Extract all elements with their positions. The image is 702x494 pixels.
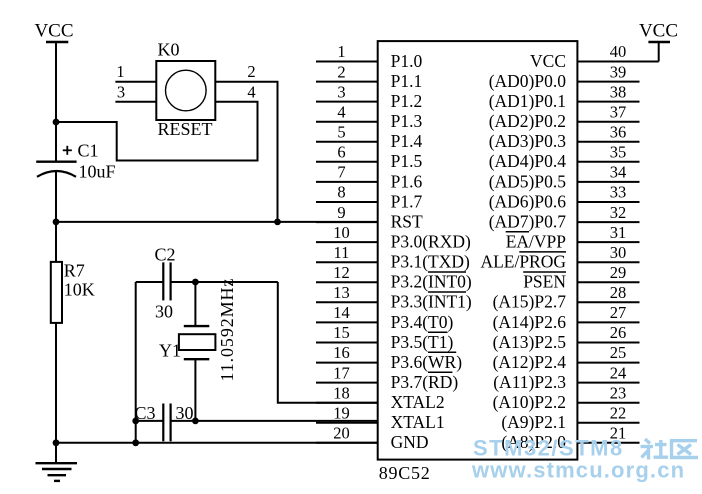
svg-text:14: 14 <box>333 303 350 322</box>
U1 pin 13: P3.3 <box>316 283 472 312</box>
svg-text:2: 2 <box>247 62 255 81</box>
svg-text:P1.2: P1.2 <box>391 91 423 111</box>
wire: RST node down to R7 <box>55 222 57 262</box>
svg-text:R7: R7 <box>64 261 85 281</box>
svg-text:P1.1: P1.1 <box>391 71 423 91</box>
svg-text:EA/VPP: EA/VPP <box>506 232 567 252</box>
svg-text:27: 27 <box>610 303 627 322</box>
wire: oscillator left rail <box>135 282 137 443</box>
svg-text:34: 34 <box>610 163 627 182</box>
svg-text:(AD4)P0.4: (AD4)P0.4 <box>489 151 567 171</box>
svg-text:(A10)P2.2: (A10)P2.2 <box>493 392 566 412</box>
svg-text:28: 28 <box>610 283 627 302</box>
svg-text:22: 22 <box>610 404 627 423</box>
svg-text:13: 13 <box>333 283 350 302</box>
U1 pin 7: P1.6 <box>316 163 422 192</box>
svg-text:26: 26 <box>610 323 627 342</box>
svg-text:31: 31 <box>610 223 627 242</box>
svg-text:(A13)P2.5: (A13)P2.5 <box>493 332 567 352</box>
svg-text:19: 19 <box>333 404 350 423</box>
U1 pin 38: P0.1 <box>489 82 640 111</box>
svg-text:89C52: 89C52 <box>379 463 431 483</box>
svg-text:30: 30 <box>610 243 627 262</box>
svg-text:GND: GND <box>391 432 429 452</box>
svg-text:35: 35 <box>610 143 627 162</box>
U1 pin 5: P1.4 <box>316 123 422 152</box>
U1 pin 17: P3.7 <box>316 363 458 392</box>
U1 pin 21: P2.0 <box>501 424 639 453</box>
svg-text:XTAL1: XTAL1 <box>391 412 445 432</box>
wire: VCC rail down to C1 top plate <box>55 42 57 162</box>
svg-text:3: 3 <box>117 83 125 102</box>
svg-text:18: 18 <box>333 383 350 402</box>
svg-text:9: 9 <box>337 203 345 222</box>
svg-text:(A14)P2.6: (A14)P2.6 <box>493 312 567 332</box>
U1 pin 34: P0.5 <box>489 163 640 192</box>
svg-text:5: 5 <box>337 123 345 142</box>
svg-text:RST: RST <box>391 212 423 232</box>
K0 pin 1 stub and number <box>115 62 156 82</box>
node: junction C2 / crystal Y1 top <box>192 279 199 286</box>
wire: left rail to C2 <box>136 281 164 283</box>
U1 pin 16: P3.6 <box>316 343 462 372</box>
svg-text:P3.6(WR): P3.6(WR) <box>391 352 463 372</box>
svg-text:C1: C1 <box>78 141 99 161</box>
U1 pin 33: P0.6 <box>489 183 640 212</box>
capacitor C3 <box>163 404 170 442</box>
svg-text:32: 32 <box>610 203 627 222</box>
U1 pin 30: ALE/PROG <box>480 243 639 272</box>
node: junction RST net / left rail <box>53 219 60 226</box>
svg-text:1: 1 <box>337 42 345 61</box>
svg-text:VCC: VCC <box>639 21 678 42</box>
wire: XTAL2 branch down and to IC pin 18 <box>278 282 378 403</box>
svg-text:VCC: VCC <box>530 51 566 71</box>
op-amp/IC U1 89C52 body <box>378 41 578 460</box>
K0 pin 4 stub and number <box>215 83 258 102</box>
node: junction VCC rail / reset-network <box>53 119 60 126</box>
svg-text:P1.0: P1.0 <box>391 51 423 71</box>
U1 pin 24: P2.3 <box>493 363 639 392</box>
wire: Y1 bottom stub <box>194 359 196 421</box>
wire: C1 bottom to RST node <box>55 171 57 222</box>
svg-text:C2: C2 <box>155 245 176 265</box>
svg-text:P3.4(T0): P3.4(T0) <box>391 312 454 332</box>
wire: left rail to C3 <box>136 420 164 422</box>
watermark line 1: STM32/STM8 + CJK <box>473 436 624 461</box>
U1 pin 9: RST <box>316 203 423 232</box>
U1 pin 22: P2.1 <box>501 404 639 433</box>
svg-text:6: 6 <box>337 143 345 162</box>
svg-text:(A11)P2.3: (A11)P2.3 <box>493 372 566 392</box>
node: junction oscillator rail / C3 <box>132 418 139 425</box>
svg-text:11: 11 <box>334 243 350 262</box>
U1 pin 2: P1.1 <box>316 62 422 91</box>
svg-text:P3.1(TXD): P3.1(TXD) <box>391 252 470 272</box>
svg-text:(AD1)P0.1: (AD1)P0.1 <box>489 91 566 111</box>
svg-text:2: 2 <box>337 62 345 81</box>
svg-text:(AD2)P0.2: (AD2)P0.2 <box>489 111 566 131</box>
svg-text:P3.0(RXD): P3.0(RXD) <box>391 232 471 252</box>
svg-text:P1.3: P1.3 <box>391 111 423 131</box>
svg-text:38: 38 <box>610 82 627 101</box>
pushbutton K0 body <box>156 61 215 120</box>
svg-text:P3.2(INT0): P3.2(INT0) <box>391 272 472 292</box>
svg-text:17: 17 <box>333 363 350 382</box>
U1 pin 8: P1.7 <box>316 183 422 212</box>
wire: IC pin 40 up to VCC symbol <box>658 41 660 62</box>
svg-text:XTAL2: XTAL2 <box>391 392 445 412</box>
U1 pin 23: P2.2 <box>493 383 640 412</box>
U1 pin 12: P3.2 <box>316 263 472 292</box>
svg-text:P3.3(INT1): P3.3(INT1) <box>391 292 472 312</box>
svg-text:7: 7 <box>337 163 345 182</box>
U1 pin 26: P2.5 <box>493 323 640 352</box>
watermark CJK char 1 (she) <box>641 439 669 460</box>
U1 pin 15: P3.5 <box>316 323 453 352</box>
svg-text:RESET: RESET <box>158 119 213 139</box>
svg-text:(AD7)P0.7: (AD7)P0.7 <box>489 212 567 232</box>
svg-text:29: 29 <box>610 263 627 282</box>
crystal Y1 <box>179 326 216 359</box>
svg-text:P3.5(T1): P3.5(T1) <box>391 332 454 352</box>
K0 pin 3 stub and number <box>115 83 156 102</box>
U1 pin 37: P0.2 <box>489 102 640 131</box>
U1 pin 27: P2.6 <box>493 303 640 332</box>
svg-text:(AD0)P0.0: (AD0)P0.0 <box>489 71 567 91</box>
U1 pin 3: P1.2 <box>316 82 422 111</box>
resistor R7 <box>51 262 62 323</box>
wire: R7 down to ground node <box>55 323 57 463</box>
U1 pin 19: XTAL1 <box>316 404 445 433</box>
power symbol VCC (top left) <box>34 21 73 42</box>
ground symbol <box>36 463 78 481</box>
U1 pin 32: P0.7 <box>489 203 640 232</box>
svg-text:4: 4 <box>247 83 255 102</box>
svg-text:20: 20 <box>333 424 350 443</box>
svg-text:PSEN: PSEN <box>523 272 566 292</box>
U1 pin 14: P3.4 <box>316 303 453 332</box>
svg-text:36: 36 <box>610 123 627 142</box>
svg-text:33: 33 <box>610 183 627 202</box>
U1 pin 29: PSEN <box>523 263 639 292</box>
U1 pin 25: P2.4 <box>493 343 640 372</box>
U1 pin 28: P2.7 <box>493 283 640 312</box>
U1 pin 18: XTAL2 <box>316 383 445 412</box>
U1 pin 35: P0.4 <box>489 143 640 172</box>
svg-text:39: 39 <box>610 62 627 81</box>
svg-text:3: 3 <box>337 82 345 101</box>
U1 pin 40: VCC <box>530 42 659 71</box>
U1 pin 4: P1.3 <box>316 102 422 131</box>
svg-text:4: 4 <box>337 102 345 121</box>
svg-text:(AD3)P0.3: (AD3)P0.3 <box>489 131 567 151</box>
svg-text:25: 25 <box>610 343 627 362</box>
svg-text:P3.7(RD): P3.7(RD) <box>391 372 459 392</box>
svg-text:16: 16 <box>333 343 350 362</box>
node: junction Y1 / C3 / XTAL1 <box>192 418 199 425</box>
svg-text:23: 23 <box>610 383 627 402</box>
svg-text:(A12)P2.4: (A12)P2.4 <box>493 352 567 372</box>
svg-text:K0: K0 <box>158 40 180 60</box>
U1 pin 11: P3.1 <box>316 243 470 272</box>
svg-text:www.stmcu.org.cn: www.stmcu.org.cn <box>471 458 685 483</box>
U1 pin 6: P1.5 <box>316 143 422 172</box>
svg-text:8: 8 <box>337 183 345 202</box>
wire: K0 pin 2 down to RST net <box>277 82 279 222</box>
node: junction ground net / R7 <box>53 439 60 446</box>
svg-text:P1.4: P1.4 <box>391 131 423 151</box>
U1 pin 10: P3.0 <box>316 223 471 252</box>
svg-text:15: 15 <box>333 323 350 342</box>
wire: Y1 top stub <box>194 282 196 326</box>
svg-text:(A9)P2.1: (A9)P2.1 <box>501 412 566 432</box>
svg-text:VCC: VCC <box>34 21 73 42</box>
node: junction oscillator rail / ground net <box>132 439 139 446</box>
svg-text:1: 1 <box>116 62 124 81</box>
svg-text:P1.5: P1.5 <box>391 151 423 171</box>
svg-text:11.0592MHz: 11.0592MHz <box>217 278 237 382</box>
svg-text:10uF: 10uF <box>79 162 116 182</box>
wire: C3 to IC pin 19 XTAL1 <box>171 420 378 422</box>
svg-text:10: 10 <box>333 223 350 242</box>
power symbol VCC (top right) <box>639 21 678 42</box>
U1 pin 1: P1.0 <box>316 42 422 71</box>
watermark line 2: www.stmcu.org.cn <box>471 458 685 483</box>
svg-text:(AD5)P0.5: (AD5)P0.5 <box>489 171 567 191</box>
wire: K0 pin 4 loop to VCC junction <box>56 102 258 161</box>
watermark CJK char 2 (qu) <box>672 441 699 458</box>
wire: RST net to IC pin 9 <box>56 221 378 223</box>
svg-text:10K: 10K <box>64 280 95 300</box>
node: junction RST net / K0 pin 2 <box>274 219 281 226</box>
U1 pin 31: EA/VPP <box>506 223 640 252</box>
U1 pin 20: GND <box>316 424 429 453</box>
svg-text:P1.7: P1.7 <box>391 191 423 211</box>
U1 pin 39: P0.0 <box>489 62 640 91</box>
svg-text:Y1: Y1 <box>159 341 181 361</box>
capacitor C2 <box>163 262 170 300</box>
svg-text:(A15)P2.7: (A15)P2.7 <box>493 292 567 312</box>
wire: C2 to XTAL2 branch <box>171 281 278 283</box>
capacitor C1 (electrolytic) <box>36 162 76 177</box>
svg-text:37: 37 <box>610 102 627 121</box>
svg-text:40: 40 <box>610 42 627 61</box>
svg-text:P1.6: P1.6 <box>391 171 423 191</box>
U1 pin 36: P0.3 <box>489 123 640 152</box>
K0 pin 2 stub and number <box>215 62 278 82</box>
wire: ground net to IC pin 20 <box>56 442 378 444</box>
svg-text:ALE/PROG: ALE/PROG <box>480 252 566 272</box>
C1 polarity + sign <box>63 146 72 155</box>
svg-text:30: 30 <box>155 302 173 322</box>
svg-text:(AD6)P0.6: (AD6)P0.6 <box>489 191 567 211</box>
svg-text:12: 12 <box>333 263 350 282</box>
svg-text:24: 24 <box>610 363 627 382</box>
